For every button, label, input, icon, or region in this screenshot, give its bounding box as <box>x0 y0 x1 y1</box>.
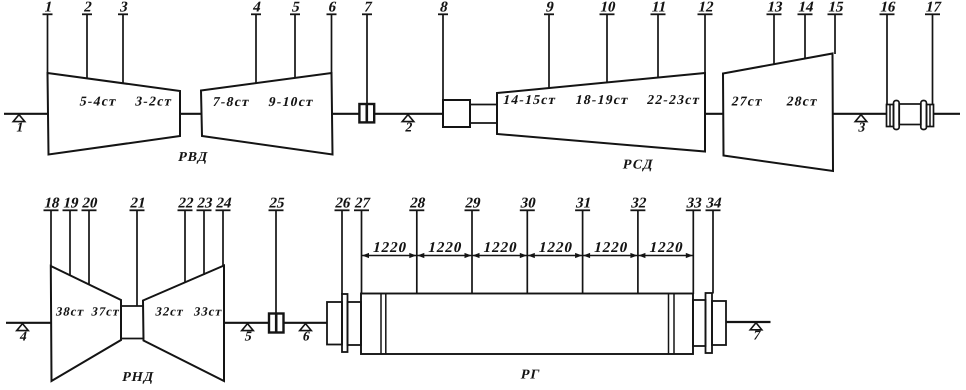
coupling half at line 17 <box>921 101 934 130</box>
svg-text:20: 20 <box>81 195 100 212</box>
svg-text:РВД: РВД <box>177 149 210 164</box>
rotor РСД (14-15ст 18-19ст 22-23ст) <box>497 73 705 152</box>
svg-text:14: 14 <box>797 0 816 16</box>
body ring left b <box>385 294 387 355</box>
svg-text:22-23ст: 22-23ст <box>646 92 702 107</box>
svg-text:5-4ст: 5-4ст <box>78 93 118 108</box>
svg-text:8: 8 <box>438 0 449 16</box>
svg-text:1220: 1220 <box>482 239 520 256</box>
svg-text:18: 18 <box>43 195 62 212</box>
svg-text:27: 27 <box>353 195 372 212</box>
generator left neck <box>348 302 362 345</box>
measurement line 5 <box>290 0 302 79</box>
generator rotor body РГ <box>361 294 693 355</box>
svg-text:15: 15 <box>827 0 846 16</box>
svg-text:1: 1 <box>43 0 54 16</box>
svg-text:19: 19 <box>62 195 81 212</box>
measurement line 22 <box>177 195 196 283</box>
measurement line 33 <box>685 195 704 294</box>
measurement line 27 <box>353 195 372 294</box>
measurement line 10 <box>599 0 618 83</box>
shaft segment to support 3 <box>833 113 887 115</box>
body ring right a <box>668 294 670 355</box>
measurement line 13 <box>766 0 785 65</box>
svg-text:28ст: 28ст <box>785 94 819 109</box>
measurement line 9 <box>544 0 556 89</box>
shaft segment left of РНД <box>6 322 51 324</box>
measurement line 32 <box>630 195 649 294</box>
coupling half at line 16 <box>887 101 900 130</box>
rotor РНД right section (32ст 33ст) <box>143 266 224 382</box>
measurement line 34 <box>705 195 724 294</box>
svg-text:2: 2 <box>82 0 93 16</box>
svg-text:13: 13 <box>766 0 785 16</box>
svg-text:3: 3 <box>118 0 129 16</box>
generator right neck <box>693 300 706 346</box>
generator left flange <box>342 294 348 352</box>
svg-text:21: 21 <box>129 195 148 212</box>
measurement line 24 <box>215 195 234 267</box>
РНД middle box <box>121 306 143 339</box>
svg-text:3-2ст: 3-2ст <box>134 93 174 108</box>
svg-text:16: 16 <box>879 0 898 16</box>
shaft segment РСД to rear cylinder <box>705 113 723 115</box>
svg-text:32ст: 32ст <box>154 305 186 319</box>
generator right hub <box>712 301 726 345</box>
svg-text:22: 22 <box>177 195 196 212</box>
svg-text:РНД: РНД <box>121 369 156 384</box>
measurement line 2 <box>82 0 93 79</box>
svg-text:32: 32 <box>630 195 649 212</box>
svg-text:28: 28 <box>408 195 427 212</box>
svg-text:26: 26 <box>334 195 353 212</box>
measurement line 21 <box>129 195 148 307</box>
measurement line 4 <box>251 0 263 84</box>
shaft segment right end <box>934 113 961 115</box>
bearing support 3 <box>855 115 867 135</box>
rotor РВД rear section (7-8ст 9-10ст) <box>201 73 333 155</box>
measurement line 29 <box>464 195 483 294</box>
shaft segment between РВД sections <box>180 113 201 115</box>
rotor РВД front section (5-4ст 3-2ст) <box>48 73 181 155</box>
measurement line 26 <box>334 195 353 295</box>
svg-text:31: 31 <box>574 195 593 212</box>
bearing support 5 <box>242 324 254 344</box>
shaft segment left of РВД <box>4 113 48 115</box>
body ring left a <box>380 294 382 355</box>
svg-text:30: 30 <box>519 195 538 212</box>
measurement line 7 <box>362 0 374 105</box>
svg-text:33: 33 <box>685 195 704 212</box>
measurement line 25 <box>268 195 287 314</box>
bearing support 4 <box>17 324 29 344</box>
svg-text:7: 7 <box>362 0 373 16</box>
svg-text:12: 12 <box>697 0 716 16</box>
bearing support 1 <box>13 115 25 135</box>
svg-text:37ст: 37ст <box>90 305 122 319</box>
measurement line 6 <box>327 0 339 74</box>
svg-text:1220: 1220 <box>427 239 465 256</box>
measurement line 23 <box>196 195 215 275</box>
measurement line 28 <box>408 195 427 294</box>
measurement line 12 <box>697 0 716 74</box>
connector РСД inlet <box>470 105 497 124</box>
shaft segment РНД to coupling <box>224 322 269 324</box>
rotor rear cylinder (27ст 28ст) <box>723 54 833 172</box>
measurement line 16 <box>879 0 898 105</box>
svg-text:11: 11 <box>650 0 668 16</box>
svg-text:1220: 1220 <box>371 239 409 256</box>
bearing support 6 <box>300 324 312 344</box>
svg-text:33ст: 33ст <box>193 305 225 319</box>
svg-text:9-10ст: 9-10ст <box>267 94 315 109</box>
coupling sleeve <box>899 104 921 125</box>
svg-text:24: 24 <box>215 195 234 212</box>
measurement line 20 <box>81 195 100 285</box>
svg-text:1220: 1220 <box>537 239 575 256</box>
svg-text:29: 29 <box>464 195 483 212</box>
generator right flange <box>706 293 713 353</box>
generator left hub <box>327 302 342 345</box>
coupling at line 25 <box>269 314 284 333</box>
svg-text:9: 9 <box>544 0 555 16</box>
measurement line 1 <box>43 0 54 74</box>
measurement line 17 <box>924 0 943 105</box>
svg-text:38ст: 38ст <box>55 305 87 319</box>
measurement line 19 <box>62 195 81 276</box>
shaft segment РВД to coupling <box>333 113 360 115</box>
rotor РНД left section (38ст 37ст) <box>51 266 122 381</box>
svg-text:РГ: РГ <box>520 367 542 382</box>
bearing support 7 <box>750 323 762 343</box>
svg-text:27ст: 27ст <box>730 94 764 109</box>
measurement line 31 <box>574 195 593 294</box>
svg-text:10: 10 <box>599 0 618 16</box>
svg-text:РСД: РСД <box>622 157 656 172</box>
coupling at line 7 <box>359 104 374 122</box>
dimension chain line <box>362 253 694 258</box>
svg-text:1220: 1220 <box>648 239 686 256</box>
svg-text:25: 25 <box>268 195 287 212</box>
measurement line 18 <box>43 195 62 267</box>
svg-text:17: 17 <box>924 0 943 16</box>
svg-text:18-19ст: 18-19ст <box>574 92 630 107</box>
svg-text:23: 23 <box>196 195 215 212</box>
svg-text:1220: 1220 <box>592 239 630 256</box>
shaft segment coupling to generator <box>284 322 328 324</box>
svg-text:5: 5 <box>290 0 301 16</box>
shaft segment coupling to thrust box <box>374 113 443 115</box>
bearing support 2 <box>402 115 414 135</box>
measurement line 3 <box>118 0 130 84</box>
measurement line 30 <box>519 195 538 294</box>
thrust bearing box at line 8 <box>443 100 470 127</box>
measurement line 11 <box>650 0 668 78</box>
measurement line 15 <box>827 0 846 54</box>
svg-text:4: 4 <box>251 0 262 16</box>
svg-text:14-15ст: 14-15ст <box>502 92 558 107</box>
shaft segment generator right end <box>726 321 771 323</box>
measurement line 14 <box>797 0 816 59</box>
body ring right b <box>673 294 675 355</box>
measurement line 8 <box>438 0 450 100</box>
svg-text:6: 6 <box>327 0 338 16</box>
svg-text:34: 34 <box>705 195 724 212</box>
svg-text:7-8ст: 7-8ст <box>211 94 251 109</box>
